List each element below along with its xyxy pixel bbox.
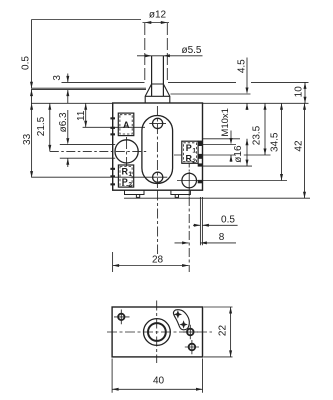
leader line 0.5 top — [32, 19, 142, 21]
extension lines right of body — [203, 139, 252, 166]
bottom tab right stub — [175, 195, 178, 198]
body outline (front view) — [113, 103, 203, 190]
svg-text:4.5: 4.5 — [237, 59, 248, 73]
dimension 40 — [112, 359, 202, 393]
svg-text:28: 28 — [152, 255, 164, 266]
dimension 10 — [304, 82, 306, 103]
bottom view outline — [112, 307, 202, 357]
dimension 11 — [85, 103, 87, 127]
plunger pin shaft — [152, 56, 164, 97]
port centerline A — [83, 126, 145, 128]
svg-text:23.5: 23.5 — [252, 125, 263, 145]
lower right circle port — [182, 173, 197, 188]
dimension 23.5 — [264, 103, 266, 155]
slot bottom hole — [153, 172, 163, 182]
extension line 42 bottom — [124, 197, 310, 199]
bottom view horizontal centerline — [107, 331, 212, 333]
svg-text:M10x1: M10x1 — [220, 108, 231, 137]
bottom tab left stub — [136, 195, 139, 198]
svg-text:2: 2 — [128, 181, 132, 188]
central slot (stadium) — [142, 116, 173, 184]
svg-text:A: A — [123, 120, 130, 130]
svg-text:P: P — [186, 143, 192, 153]
dimension o6.3 vertical — [67, 110, 69, 138]
dimension 0.5 bottom — [193, 224, 238, 226]
svg-text:0.5: 0.5 — [221, 215, 235, 226]
bottom view vertical centerline — [156, 301, 158, 364]
dimension 4.5 vertical — [246, 58, 248, 88]
dimension line o5.5 — [137, 55, 203, 57]
lower right circle vertical line — [188, 172, 190, 197]
left circle port — [115, 140, 138, 163]
extension line 34.5 / circle horizontal — [177, 180, 287, 182]
dimension 33 — [31, 103, 33, 177]
dimension M10x1 leader — [230, 131, 232, 139]
bottom tab right — [171, 190, 191, 194]
svg-text:33: 33 — [22, 133, 33, 145]
left circle vertical crosshair — [126, 137, 128, 166]
main bore inner — [148, 323, 166, 341]
extension lines o12 (dashed) — [145, 23, 168, 81]
dimension 0.5 left vertical — [31, 20, 33, 89]
dimension 3 vertical — [67, 74, 69, 83]
thread ticks left edge A port — [110, 117, 115, 185]
svg-text:34.5: 34.5 — [270, 132, 281, 152]
screw hole top-left — [118, 314, 124, 320]
bottom tab left — [125, 190, 145, 194]
extension pair 0.5 below body — [200, 197, 202, 245]
svg-text:8: 8 — [219, 232, 225, 243]
svg-text:ø6.3: ø6.3 — [58, 112, 69, 132]
oval top hole crosshair — [149, 122, 166, 124]
svg-text:11: 11 — [76, 110, 87, 121]
reference line A (pin top travel) — [62, 81, 309, 83]
dimension 34.5 — [281, 103, 283, 180]
cam punch mark upper — [174, 310, 182, 318]
slot top hole — [153, 118, 163, 128]
port box P1 R2 — [182, 141, 198, 163]
port box R1 P2 — [118, 165, 133, 187]
dimension line o12 — [143, 22, 170, 24]
cam lobe outline — [173, 310, 189, 330]
svg-text:ø16: ø16 — [233, 145, 244, 163]
screw hole right mid — [187, 329, 194, 336]
svg-text:42: 42 — [293, 140, 304, 152]
thread marks right edge — [198, 141, 203, 184]
svg-text:0.5: 0.5 — [21, 56, 32, 70]
dimension 28 — [112, 252, 114, 272]
svg-text:2: 2 — [192, 158, 196, 165]
bore lines o6.3 — [60, 145, 115, 159]
port box A — [118, 113, 134, 136]
svg-text:40: 40 — [153, 376, 165, 387]
centerline below body — [157, 191, 159, 255]
dimension 8 — [175, 242, 237, 244]
svg-text:1: 1 — [128, 171, 132, 178]
centerline of right circle below body — [188, 197, 190, 272]
body top extension line — [31, 102, 309, 104]
svg-text:P: P — [122, 177, 128, 187]
svg-text:3: 3 — [52, 75, 63, 81]
cam punch mark lower — [179, 320, 187, 328]
reference line C (pressed position) — [171, 93, 251, 95]
svg-text:22: 22 — [218, 325, 229, 337]
svg-text:10: 10 — [294, 86, 305, 98]
dimension 21.5 — [49, 103, 51, 151]
screw hole right lower — [189, 344, 196, 351]
svg-text:21.5: 21.5 — [36, 116, 47, 136]
svg-text:ø12: ø12 — [149, 10, 167, 21]
port centerline R1P2 / oval bottom hole — [32, 176, 168, 178]
port centerline left circle — [50, 150, 146, 152]
dimension 42 — [304, 103, 306, 198]
dimension 22 — [203, 307, 232, 357]
port centerline P1R2 — [174, 154, 271, 156]
dimension o16 — [246, 139, 248, 166]
reference line pair 0.5 — [31, 88, 146, 89]
main bore outer — [144, 319, 171, 346]
main vertical centerline — [156, 106, 158, 188]
plunger flange cone — [145, 84, 170, 103]
svg-text:ø5.5: ø5.5 — [181, 45, 201, 56]
svg-text:1: 1 — [192, 148, 196, 155]
